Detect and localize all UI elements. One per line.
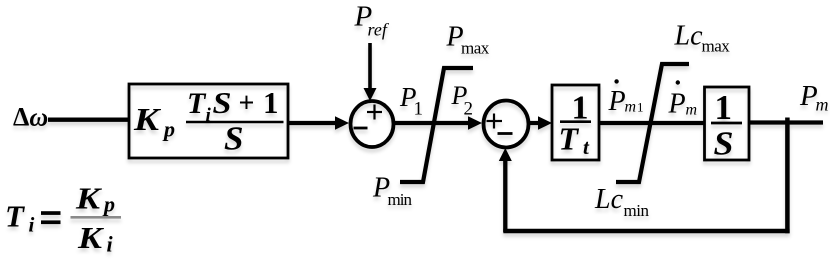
svg-text:K: K — [77, 220, 105, 255]
svg-text:i: i — [29, 213, 35, 237]
svg-text:2: 2 — [464, 99, 474, 120]
wire summer 2 to turbine block with arrow — [528, 121, 539, 125]
fraction bar of PI block — [186, 121, 284, 124]
svg-text:i: i — [107, 232, 114, 257]
svg-text:m: m — [625, 99, 637, 116]
svg-text:m: m — [686, 102, 698, 119]
PI controller block Kp(TiS+1)/S — [129, 84, 288, 158]
formula fraction bar — [71, 216, 122, 219]
svg-text:p: p — [102, 192, 115, 217]
svg-text:1: 1 — [263, 85, 279, 120]
svg-text:S: S — [213, 85, 232, 120]
svg-text:1: 1 — [637, 100, 644, 115]
svg-text:min: min — [624, 201, 650, 220]
fraction bar of turbine block — [560, 120, 591, 123]
svg-text:max: max — [702, 37, 731, 56]
wire Pref down into summer 1 with arrow — [368, 43, 372, 89]
svg-text:P: P — [668, 89, 686, 120]
svg-text:max: max — [461, 39, 490, 58]
wire PI block to summer 1 with arrow — [288, 121, 336, 125]
node Pm-dot label — [676, 80, 680, 84]
summing junction 2 — [484, 101, 529, 148]
svg-text:K: K — [133, 101, 162, 137]
integrator block 1/S — [705, 87, 750, 160]
wire integrator block to output — [750, 120, 823, 124]
svg-text:+: + — [239, 88, 255, 119]
minus sign of summer 1 — [354, 127, 368, 130]
svg-text:P: P — [608, 86, 626, 117]
wire turbine block to integrator block — [599, 121, 705, 125]
limiter 2 rate limit symbol — [616, 64, 689, 182]
svg-text:Lc: Lc — [674, 21, 704, 52]
svg-text:1: 1 — [414, 99, 424, 120]
svg-text:T: T — [559, 121, 580, 157]
svg-text:S: S — [714, 126, 734, 163]
svg-text:S: S — [224, 121, 244, 158]
svg-text:m: m — [816, 95, 829, 115]
summing junction 1 — [351, 101, 394, 147]
turbine block 1/Tt — [552, 85, 599, 160]
svg-text:Δω: Δω — [13, 103, 48, 132]
svg-text:Lc: Lc — [594, 184, 624, 215]
svg-text:T: T — [187, 87, 207, 120]
wire feedback bottom horizontal — [503, 229, 789, 234]
wire feedback up into summer 2 with arrow — [503, 160, 507, 232]
minus sign of summer 2 — [498, 132, 513, 135]
fraction bar of integrator block — [711, 122, 742, 125]
svg-text:K: K — [75, 181, 103, 216]
plus sign of summer 2 — [487, 120, 503, 122]
wire summer 1 to summer 2 with arrow — [393, 121, 469, 125]
svg-text:p: p — [162, 117, 175, 142]
svg-text:T: T — [5, 199, 25, 234]
svg-text:ref: ref — [368, 20, 390, 40]
wire from Δω to PI block — [48, 118, 129, 122]
svg-text:min: min — [388, 190, 413, 209]
svg-text:1: 1 — [715, 88, 733, 127]
wire feedback down from output junction — [785, 118, 790, 234]
node Pm1-dot label — [614, 79, 618, 83]
limiter 1 saturation symbol — [400, 68, 473, 182]
plus sign of summer 1 — [367, 111, 382, 113]
